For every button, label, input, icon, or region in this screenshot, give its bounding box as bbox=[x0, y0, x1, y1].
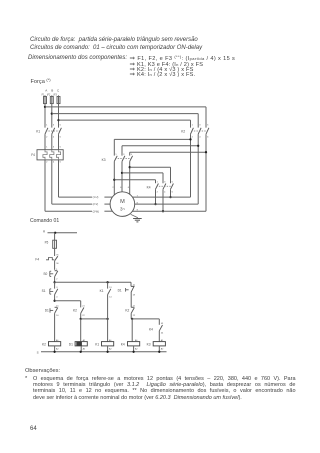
svg-text:3: 3 bbox=[53, 147, 55, 149]
svg-text:6: 6 bbox=[207, 137, 209, 139]
svg-text:K4: K4 bbox=[121, 342, 125, 346]
svg-text:1: 1 bbox=[46, 125, 48, 127]
svg-text:3: 3 bbox=[53, 125, 55, 127]
svg-text:5: 5 bbox=[60, 147, 62, 149]
section label Força bbox=[31, 77, 51, 85]
svg-text:A2: A2 bbox=[109, 347, 112, 350]
wire K4 contact to K3 coil bbox=[158, 331, 160, 342]
node rail S K3 junction bbox=[158, 351, 160, 353]
wire K2 pole3 tap to K3 pole3 bbox=[130, 151, 206, 153]
wire S0 to node A bbox=[54, 277, 56, 283]
svg-text:K1: K1 bbox=[36, 129, 40, 133]
wire K4 pole1 to motor line 8 bbox=[155, 189, 157, 204]
svg-text:4: 4 bbox=[56, 297, 58, 299]
wire phase B vertical bbox=[51, 104, 53, 128]
svg-text:21: 21 bbox=[133, 306, 136, 308]
svg-text:18: 18 bbox=[133, 294, 136, 296]
node K4 pole2 junction bbox=[162, 210, 164, 212]
wire node B to K2 branch bbox=[55, 300, 81, 302]
svg-text:K4: K4 bbox=[149, 327, 153, 331]
svg-text:6: 6 bbox=[60, 161, 62, 163]
node K3 pole3 tap bbox=[129, 166, 131, 168]
Observações heading bbox=[25, 368, 60, 374]
svg-text:15: 15 bbox=[56, 306, 59, 308]
node R junction bbox=[54, 232, 56, 234]
wire F4 out phase B to motor V bbox=[51, 160, 53, 204]
svg-text:6: 6 bbox=[60, 137, 62, 139]
wire K4 pole3 to motor line 7 bbox=[170, 189, 172, 197]
svg-text:5: 5 bbox=[131, 154, 133, 156]
svg-text:K2: K2 bbox=[73, 308, 77, 312]
svg-text:D1: D1 bbox=[45, 308, 49, 312]
svg-text:M: M bbox=[120, 199, 125, 205]
wire D1 contact to K2 coil bbox=[54, 313, 56, 341]
wire F4 out phase C to motor U bbox=[58, 160, 60, 197]
page number bbox=[30, 426, 37, 432]
node C2 junction bbox=[106, 318, 108, 320]
node A junction bbox=[53, 281, 55, 283]
svg-text:5: 5 bbox=[172, 181, 174, 183]
svg-text:F5: F5 bbox=[45, 240, 49, 244]
control circuit Comando 01 bbox=[35, 229, 166, 354]
footnote bullet bbox=[25, 376, 27, 382]
node rail S K2 junction bbox=[53, 351, 55, 353]
svg-text:2: 2 bbox=[46, 137, 48, 139]
svg-text:21: 21 bbox=[82, 306, 85, 308]
wire rail S bbox=[41, 351, 167, 353]
node C junction bbox=[80, 318, 82, 320]
svg-text:3: 3 bbox=[164, 181, 166, 183]
svg-text:S0: S0 bbox=[43, 272, 47, 276]
svg-text:(F3: (F3 bbox=[53, 94, 57, 96]
wire tap to K4 pole2 bbox=[122, 172, 163, 174]
svg-text:S1: S1 bbox=[42, 289, 46, 293]
wire tap to K4 pole3 bbox=[130, 166, 171, 168]
wire K3 pole2 down to motor bbox=[121, 161, 123, 191]
svg-text:A: A bbox=[45, 89, 47, 93]
node tap B bbox=[51, 112, 53, 114]
wire K4 pole2 to motor line 9 bbox=[162, 189, 164, 211]
dimensioning list bbox=[130, 54, 236, 62]
wire K2 pole1 down bbox=[190, 134, 192, 197]
wire K2 pole2 tap to K3 pole2 bbox=[122, 145, 198, 147]
node K2 pole1 tap bbox=[189, 138, 191, 140]
wire node C to K1 coil branch bbox=[81, 318, 108, 320]
svg-text:1: 1 bbox=[192, 125, 194, 127]
svg-text:F4: F4 bbox=[35, 257, 39, 261]
wire node C2 to K1 coil bbox=[107, 319, 109, 342]
wire tap A to K2 pole 3 bbox=[45, 106, 206, 108]
header line 1 bbox=[30, 37, 198, 43]
node rail S D1 junction bbox=[80, 351, 82, 353]
node K2 pole3 tap bbox=[205, 151, 207, 153]
motor M1 bbox=[110, 192, 135, 217]
svg-text:13: 13 bbox=[109, 287, 112, 289]
svg-text:2: 2 bbox=[192, 137, 194, 139]
svg-text:43: 43 bbox=[161, 323, 164, 325]
ground bbox=[133, 218, 142, 220]
node D junction bbox=[131, 318, 133, 320]
svg-text:22: 22 bbox=[133, 315, 136, 317]
svg-text:2: 2 bbox=[56, 279, 58, 281]
svg-text:2: 2 bbox=[157, 192, 159, 194]
fuse F1 bbox=[44, 95, 46, 96]
svg-text:(2-V): (2-V) bbox=[93, 203, 99, 206]
header line 2 bbox=[30, 45, 202, 51]
svg-text:4: 4 bbox=[53, 161, 55, 163]
wire node A to S1 bbox=[54, 282, 56, 288]
wire R feeder bbox=[48, 232, 78, 234]
svg-text:5: 5 bbox=[207, 125, 209, 127]
svg-text:B: B bbox=[51, 89, 53, 93]
wire K2 pole2 down bbox=[197, 134, 199, 204]
fuse F2 bbox=[51, 95, 53, 96]
svg-text:4: 4 bbox=[199, 137, 201, 139]
svg-text:A2: A2 bbox=[83, 347, 86, 350]
wire K2 contact to node C bbox=[80, 313, 82, 319]
node rail S K1 junction bbox=[106, 351, 108, 353]
wire node D jog bbox=[131, 318, 132, 320]
svg-text:K1: K1 bbox=[100, 289, 104, 293]
wire K3 pole3 down to motor bbox=[129, 161, 131, 194]
svg-text:D1: D1 bbox=[118, 288, 122, 292]
wire R to F5 bbox=[54, 233, 56, 240]
wire D1 NO to K2 NC contact bbox=[130, 291, 133, 293]
svg-text:K3: K3 bbox=[147, 342, 151, 346]
wire F4 out phase A to motor W bbox=[44, 160, 46, 211]
svg-text:K2: K2 bbox=[181, 129, 185, 133]
wire node D to K4 contact branch bbox=[132, 318, 159, 320]
svg-text:22: 22 bbox=[82, 315, 85, 317]
node tap C bbox=[57, 119, 59, 121]
wire phase C vertical bbox=[58, 104, 60, 128]
wire motor to ground bbox=[131, 214, 138, 218]
svg-text:2: 2 bbox=[46, 161, 48, 163]
wire tap to K4 pole1 bbox=[114, 179, 155, 181]
wire node C to D1 coil bbox=[80, 319, 82, 342]
svg-text:6: 6 bbox=[172, 192, 174, 194]
svg-text:96: 96 bbox=[56, 263, 59, 265]
node K4 pole3 junction bbox=[169, 196, 171, 198]
svg-text:1: 1 bbox=[115, 154, 117, 156]
svg-text:(1-U): (1-U) bbox=[93, 196, 99, 199]
svg-text:(F2: (F2 bbox=[47, 94, 51, 96]
wire K1 outputs to F4 bbox=[44, 134, 46, 150]
svg-text:5: 5 bbox=[60, 125, 62, 127]
svg-text:K2: K2 bbox=[125, 308, 129, 312]
svg-text:A2: A2 bbox=[161, 347, 164, 350]
wire K1 contact to node C bbox=[107, 295, 109, 319]
power circuit Força bbox=[31, 89, 209, 222]
svg-text:S: S bbox=[37, 350, 39, 354]
svg-text:(3-W): (3-W) bbox=[93, 210, 99, 213]
wire F5 to F4 contact bbox=[54, 248, 56, 256]
wire rail A to D1 NO contact bbox=[130, 282, 132, 286]
svg-text:K4: K4 bbox=[147, 186, 151, 190]
svg-text:3: 3 bbox=[123, 154, 125, 156]
svg-text:3: 3 bbox=[199, 125, 201, 127]
node B junction bbox=[53, 300, 55, 302]
wire tap C to K2 pole 1 bbox=[59, 119, 191, 121]
svg-text:R: R bbox=[43, 229, 46, 233]
wire K2 pole1 tap to K3 pole1 bbox=[114, 138, 190, 140]
wire S1 to node B bbox=[54, 295, 56, 301]
svg-text:3~: 3~ bbox=[120, 207, 126, 212]
svg-text:D1: D1 bbox=[69, 342, 73, 346]
svg-text:A2: A2 bbox=[56, 347, 59, 350]
wire node D to K4 coil bbox=[131, 319, 133, 342]
svg-text:1: 1 bbox=[56, 269, 58, 271]
svg-text:C: C bbox=[57, 89, 60, 93]
svg-text:15: 15 bbox=[133, 285, 136, 287]
node K3 pole2 tap bbox=[121, 172, 123, 174]
svg-text:44: 44 bbox=[161, 333, 164, 335]
wire K2 pole3 down bbox=[205, 134, 207, 211]
node rail S K4 junction bbox=[132, 351, 134, 353]
wire K3 pole1 down to motor bbox=[113, 161, 115, 194]
svg-text:4: 4 bbox=[53, 137, 55, 139]
svg-text:1: 1 bbox=[157, 181, 159, 183]
svg-text:4: 4 bbox=[164, 192, 166, 194]
svg-text:K3: K3 bbox=[102, 158, 106, 162]
svg-text:14: 14 bbox=[109, 297, 112, 299]
svg-text:K2: K2 bbox=[42, 342, 46, 346]
svg-text:3: 3 bbox=[56, 287, 58, 289]
svg-text:F4: F4 bbox=[31, 153, 35, 157]
node K4 pole1 junction bbox=[154, 203, 156, 205]
node K2 pole2 tap bbox=[197, 145, 199, 147]
svg-text:A2: A2 bbox=[135, 347, 138, 350]
svg-text:K1: K1 bbox=[95, 342, 99, 346]
wire tap B to K2 pole 2 bbox=[52, 113, 198, 115]
svg-text:1: 1 bbox=[46, 147, 48, 149]
section label Comando 01 bbox=[30, 218, 59, 224]
node rail K1 junction bbox=[106, 281, 108, 283]
wire rail A bbox=[55, 281, 131, 283]
fuse F3 bbox=[58, 95, 60, 96]
svg-text:F1: F1 bbox=[42, 94, 45, 96]
node tap A bbox=[44, 106, 46, 108]
svg-text:95: 95 bbox=[56, 254, 59, 256]
header line 3 bbox=[28, 55, 127, 61]
wire phase A vertical bbox=[44, 104, 46, 128]
svg-text:16: 16 bbox=[56, 315, 59, 317]
node K3 pole1 tap bbox=[113, 179, 115, 181]
wire F4 to S0 bbox=[54, 261, 56, 270]
wire K2 NC to node D bbox=[130, 313, 132, 319]
